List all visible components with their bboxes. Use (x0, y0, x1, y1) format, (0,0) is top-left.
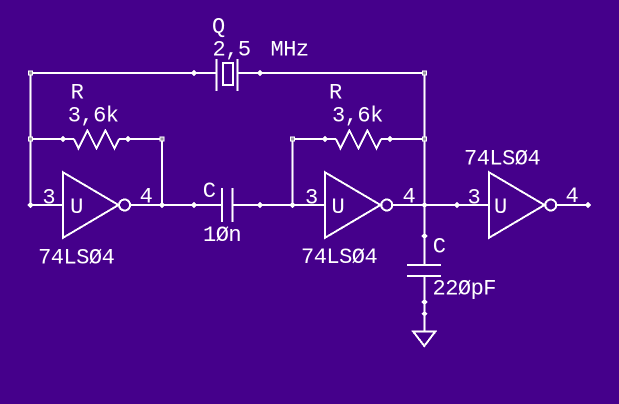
svg-text:R: R (329, 81, 342, 106)
wire corner R2 left (290, 137, 295, 142)
wire left vertical (30, 72, 32, 205)
junction U3 output pin (585, 202, 591, 208)
resistor R1 (31, 131, 163, 149)
crystal Q1 (217, 59, 238, 91)
svg-text:4: 4 (566, 184, 579, 209)
junction U2 input node (289, 202, 295, 208)
svg-text:3,6k: 3,6k (68, 104, 119, 129)
wire U2 output down to C2 (424, 205, 426, 266)
svg-text:4: 4 (140, 184, 153, 209)
svg-text:MHz: MHz (271, 37, 309, 62)
inverter U2 (325, 172, 392, 238)
wire R2 loop vertical (292, 139, 294, 205)
junction U1 input node (27, 202, 33, 208)
svg-text:74LSØ4: 74LSØ4 (464, 147, 541, 172)
svg-text:3: 3 (305, 185, 318, 210)
junction Q1 pin 2 (257, 70, 263, 76)
junction C1 pin 1 (191, 202, 197, 208)
wire R1 loop vertical (161, 139, 163, 205)
wire U1 input (31, 204, 64, 206)
svg-text:U: U (494, 195, 507, 220)
wire corner R1 left (28, 137, 33, 142)
svg-text:Q: Q (212, 15, 225, 40)
svg-text:U: U (332, 195, 345, 220)
svg-text:3,6k: 3,6k (332, 104, 383, 129)
inverter U3 (489, 172, 556, 238)
wire corner R1 right (160, 137, 165, 142)
junction C1 pin 2 (257, 202, 263, 208)
junction R2 pin 2 (387, 136, 393, 142)
svg-text:R: R (71, 81, 84, 106)
wire corner top-left (28, 71, 33, 76)
junction R2 pin 1 (322, 136, 328, 142)
capacitor C1 (222, 188, 233, 222)
junction C2 pin 2 (421, 299, 427, 305)
wire corner R2 right (422, 137, 427, 142)
junction Q1 pin 1 (191, 70, 197, 76)
svg-text:3: 3 (468, 185, 481, 210)
svg-text:3: 3 (42, 185, 55, 210)
wire corner top-right (422, 71, 427, 76)
junction R1 pin 2 (125, 136, 131, 142)
wire top left horizontal (31, 72, 218, 74)
label Q1 value 2,5 MHz (213, 37, 309, 62)
svg-text:C: C (433, 234, 446, 259)
wire top right horizontal (237, 72, 425, 74)
svg-text:74LSØ4: 74LSØ4 (38, 245, 115, 270)
svg-text:C: C (203, 179, 216, 204)
capacitor C2 (407, 265, 441, 276)
svg-text:1Øn: 1Øn (203, 223, 241, 248)
svg-text:U: U (70, 195, 83, 220)
wire U3 output (557, 204, 588, 206)
wire U1 output to C1 (130, 204, 222, 206)
svg-text:2,5: 2,5 (213, 37, 251, 62)
inverter U1 (63, 172, 130, 238)
wire C1 to U2 input (233, 204, 326, 206)
junction U1 output node (159, 202, 165, 208)
junction U3 input pin (454, 202, 460, 208)
wire C2 to ground (424, 276, 426, 331)
ground (413, 331, 436, 346)
junction C2 pin 1 (421, 233, 427, 239)
junction ground pin (421, 311, 427, 317)
junction U2 output node (421, 202, 427, 208)
wire right vertical (424, 72, 426, 205)
resistor R2 (293, 131, 425, 149)
svg-text:74LSØ4: 74LSØ4 (301, 245, 378, 270)
svg-text:4: 4 (403, 184, 416, 209)
wire U2 output to U3 input (393, 204, 489, 206)
junction R1 pin 1 (60, 136, 66, 142)
svg-text:22ØpF: 22ØpF (433, 277, 497, 302)
